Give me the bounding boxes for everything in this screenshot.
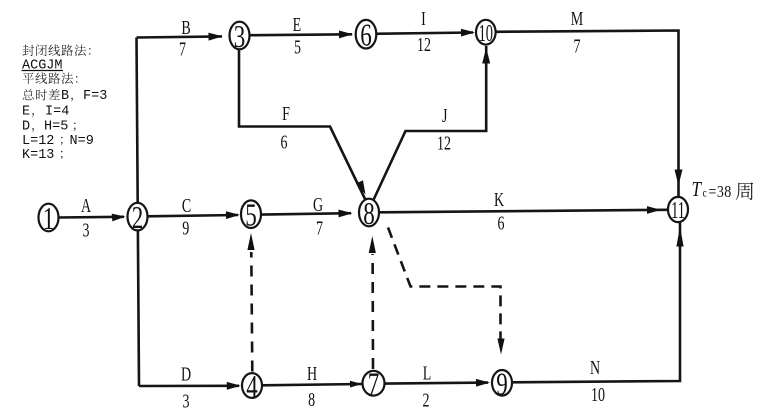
svg-text:5: 5: [294, 36, 301, 58]
svg-text:T: T: [692, 179, 703, 202]
svg-text:D: D: [22, 120, 30, 135]
svg-text:B: B: [61, 89, 69, 104]
svg-text:=38: =38: [709, 183, 732, 201]
svg-text:6: 6: [281, 131, 288, 153]
svg-text:4: 4: [246, 369, 258, 405]
svg-text:D: D: [181, 363, 191, 385]
svg-text:N: N: [590, 357, 601, 379]
svg-text:I=4: I=4: [45, 105, 69, 120]
svg-text:3: 3: [183, 390, 190, 412]
svg-text:H: H: [307, 363, 317, 385]
svg-text:E: E: [22, 105, 30, 120]
svg-text:7: 7: [368, 367, 380, 403]
svg-text:G: G: [313, 194, 323, 216]
svg-text:7: 7: [316, 217, 323, 239]
svg-text:6: 6: [360, 18, 372, 54]
svg-text:2: 2: [132, 201, 144, 237]
svg-text:K=13: K=13: [22, 148, 54, 163]
svg-text:7: 7: [574, 35, 581, 57]
svg-text:3: 3: [234, 19, 246, 55]
svg-text:12: 12: [437, 132, 451, 154]
svg-text:3: 3: [83, 219, 90, 241]
svg-text:N=9: N=9: [70, 134, 94, 149]
svg-text:M: M: [571, 8, 583, 30]
svg-text:6: 6: [498, 212, 505, 234]
svg-text:9: 9: [496, 367, 508, 403]
svg-text:K: K: [494, 189, 505, 211]
svg-text:12: 12: [417, 34, 431, 56]
svg-text:8: 8: [308, 389, 315, 411]
svg-text:J: J: [442, 105, 448, 127]
svg-text:F=3: F=3: [83, 89, 107, 104]
svg-text:8: 8: [363, 196, 375, 232]
svg-text:2: 2: [423, 389, 430, 411]
svg-text:11: 11: [671, 198, 685, 225]
svg-text:A: A: [81, 195, 92, 217]
svg-text:I: I: [421, 8, 426, 30]
svg-text:L=12: L=12: [22, 134, 54, 149]
svg-text:ACGJM: ACGJM: [22, 59, 63, 74]
svg-text:10: 10: [479, 20, 493, 47]
svg-text:10: 10: [591, 384, 605, 406]
svg-text:F: F: [282, 103, 290, 125]
svg-text:C: C: [182, 195, 191, 217]
svg-text:H=5: H=5: [44, 120, 68, 135]
svg-text:5: 5: [245, 198, 257, 234]
svg-text:7: 7: [179, 38, 186, 60]
svg-text:E: E: [293, 14, 302, 36]
svg-text:1: 1: [43, 201, 55, 237]
svg-text:B: B: [181, 17, 190, 39]
svg-text:c: c: [703, 187, 707, 200]
svg-text:L: L: [423, 362, 432, 384]
svg-text:9: 9: [182, 217, 189, 239]
